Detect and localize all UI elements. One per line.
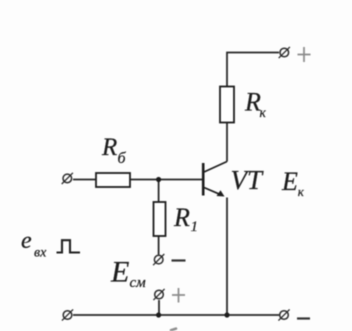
svg-text:E: E <box>281 167 298 196</box>
svg-text:б: б <box>118 150 127 167</box>
svg-text:см: см <box>130 275 147 291</box>
svg-text:E: E <box>110 256 129 289</box>
svg-text:1: 1 <box>191 219 199 235</box>
svg-text:R: R <box>101 134 117 161</box>
svg-text:вх: вх <box>34 246 47 261</box>
svg-text:R: R <box>244 88 261 117</box>
svg-text:R: R <box>173 203 190 232</box>
svg-text:VT: VT <box>231 165 264 195</box>
svg-text:к: к <box>260 105 267 120</box>
svg-text:к: к <box>298 184 305 199</box>
svg-text:e: e <box>21 228 32 254</box>
